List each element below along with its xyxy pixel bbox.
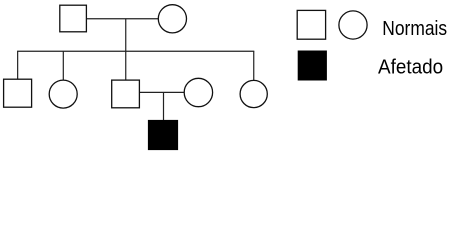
svg-text:Afetado: Afetado <box>378 57 443 79</box>
wire drop to square II-1 <box>17 51 19 79</box>
wire descent from couple I to square II-3 <box>125 19 127 80</box>
affected male square III-1 (filled) <box>148 120 177 149</box>
female circle II-2 <box>49 80 77 108</box>
sibling wire generation II <box>17 50 254 52</box>
wire drop to circle II-5 <box>253 51 255 80</box>
female circle I-2 <box>158 5 186 33</box>
legend circle Normais <box>339 11 367 39</box>
legend square Normais <box>297 10 325 39</box>
female circle II-5 <box>240 80 267 107</box>
male square II-3 <box>112 80 140 108</box>
male square II-1 <box>4 79 32 107</box>
female circle II-4 <box>184 78 212 106</box>
legend filled square Afetado <box>298 51 326 80</box>
male square I-1 <box>60 5 87 32</box>
wire drop to circle II-2 <box>62 51 64 80</box>
svg-text:Normais: Normais <box>382 18 447 40</box>
couple wire II-3 to II-4 <box>139 91 184 93</box>
wire drop to filled square III-1 <box>163 92 165 120</box>
couple wire I-1 to I-2 <box>87 18 159 20</box>
